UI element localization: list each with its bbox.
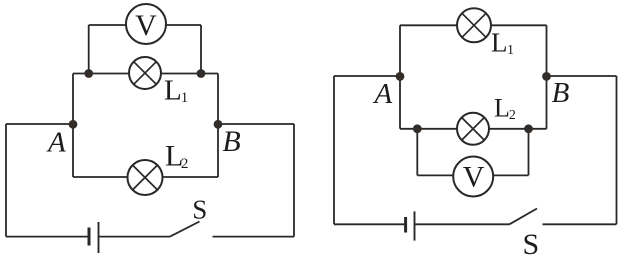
svg-text:A: A [46,127,66,159]
svg-text:B: B [222,125,240,158]
svg-text:S: S [523,228,540,257]
svg-text:B: B [552,77,570,109]
svg-text:V: V [463,161,485,194]
svg-text:S: S [192,195,207,225]
svg-text:V: V [135,9,157,42]
svg-text:A: A [373,78,393,110]
